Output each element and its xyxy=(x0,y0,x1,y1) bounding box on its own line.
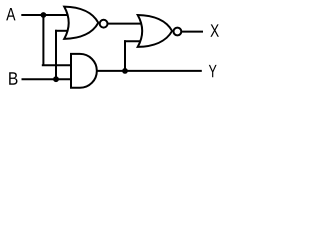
junction dot node A xyxy=(41,12,47,18)
node A label xyxy=(6,8,15,20)
nor gate U3 bubble xyxy=(174,28,182,36)
wire B input xyxy=(22,78,73,80)
nor gate U1 body xyxy=(64,7,98,39)
wire AND output to Y xyxy=(96,70,202,72)
node X label xyxy=(210,24,219,36)
wire A branch to AND xyxy=(42,64,72,66)
node B label xyxy=(9,72,17,84)
wire B branch up xyxy=(55,30,57,79)
node Y label xyxy=(209,65,217,77)
wire A input xyxy=(21,14,69,16)
junction dot AND output xyxy=(122,68,128,74)
wire B branch to NOR1 xyxy=(55,30,69,32)
wire NOR2 output to X xyxy=(181,31,203,33)
wire A branch down xyxy=(42,15,44,65)
wire branch up to NOR2 xyxy=(124,40,126,71)
nor gate U1 bubble xyxy=(100,20,108,28)
wire branch to NOR2 lower input xyxy=(124,40,143,42)
and gate U2 body xyxy=(71,54,97,88)
junction dot node B xyxy=(53,76,59,82)
wire NOR1 output to NOR2 xyxy=(108,23,143,25)
nor gate U3 body xyxy=(138,15,172,47)
